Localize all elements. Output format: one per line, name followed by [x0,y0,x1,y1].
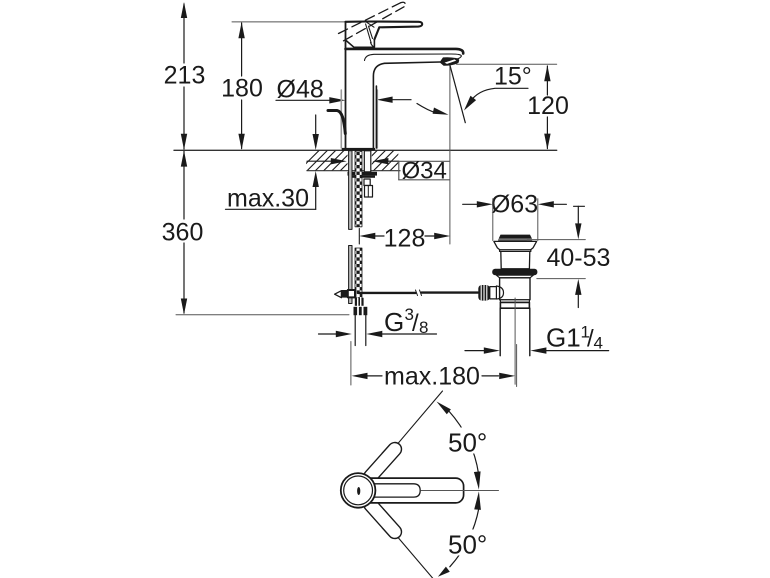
horizontal pop-up rod [358,291,478,294]
outer right column edge [375,86,377,148]
svg-text:120: 120 [527,92,569,120]
spout top edge (thick) [346,49,464,54]
arrow 120 bottom [544,134,550,150]
spout underside and inner column edge [373,62,440,148]
wire: dim 180 vertical line [241,23,243,149]
bell joint curve [496,286,503,299]
dim max.30: lower pointer and leader [313,171,319,187]
svg-text:360: 360 [162,219,204,247]
Ø63 extension lines [493,199,538,241]
body left edge [345,22,347,148]
drain upper body [501,251,530,268]
rod break marks [416,290,422,296]
thin line at -50deg (down) [358,491,433,578]
knob connector [490,287,497,299]
rod left end: cone tip [335,291,342,298]
shank tube right (in hole) [364,151,371,172]
arrow 360 top [181,151,187,167]
arrow 360 bottom [181,299,187,315]
leader for 15deg [470,88,528,102]
wire: dim 360 bottom reference line [176,314,349,316]
svg-text:Ø63: Ø63 [491,191,538,219]
pop-up bracket below deck [364,179,370,186]
50 degree arc upper [449,411,479,474]
dim max.180 [351,342,517,387]
dashed raised lever [339,2,406,41]
dim 120 vertical line [546,66,548,149]
faucet body outline [346,22,464,148]
faucet base flange [342,148,375,151]
faucet circle top view [341,473,376,508]
rotated lever outline up [361,440,404,486]
arrow 120 top [544,65,550,81]
aerator [440,58,458,66]
dim 40-53 [574,205,585,207]
wire: vertical ref line from aerator down [449,65,451,244]
dim Ø63 [463,203,477,205]
svg-text:213: 213 [164,62,206,90]
svg-text:50°: 50° [448,530,487,560]
svg-text:G1: G1 [546,323,581,353]
svg-text:180: 180 [221,75,263,103]
horizontal lever outer [358,478,464,503]
arrow 213 bottom [181,134,187,150]
deck bottom line [307,170,400,172]
svg-text:50°: 50° [448,428,487,458]
body below seal [496,275,533,278]
rotated lever outline down [361,495,404,541]
horizontal centerline [421,490,499,492]
svg-text:G: G [384,307,404,337]
callout box Ø34 [399,161,450,180]
handle lever solid [346,22,423,48]
thin line at +50deg (up) [358,391,443,491]
rod left end: screw block [342,290,348,298]
15 degree slanted line [450,65,466,123]
arrow 180 top [238,22,244,38]
drain centerline [514,298,516,384]
main drain body [500,278,530,300]
arrow 180 bottom [238,134,244,150]
dim Ø48 leader and arrows [276,99,330,101]
dim Ø34 arrow line and callout box [307,160,331,162]
svg-text:Ø34: Ø34 [402,158,447,185]
G3/8 pipe [355,315,366,345]
spout shoulder thin line wrapping right end [365,54,462,61]
drain plug cap [499,235,532,239]
drain flange [494,241,537,251]
threaded rod checkered (upper) [355,151,362,298]
svg-text:max.180: max.180 [384,363,480,391]
svg-text:Ø48: Ø48 [277,76,324,104]
svg-text:/: / [412,310,419,337]
wire: horizontal ref line at spout tip [457,63,557,65]
supply hose grey (upper) [349,151,352,304]
tailpipe [500,308,530,356]
dim 128 [358,229,360,245]
center dot [357,487,360,495]
wire: dim 360 vertical line [183,151,185,313]
knurled knob on drain [478,285,490,301]
cartridge internal lines [366,22,374,27]
deck line (countertop top) [174,149,557,151]
arc arrowheads [437,402,451,415]
wire: dim 180 extension line at handle top [232,21,345,23]
G3/8 nut [354,307,368,315]
svg-text:8: 8 [419,318,428,337]
lower collar [500,300,529,303]
mounting washer [348,172,378,176]
rod left end: clevis square [348,290,355,297]
arrow 213 top [181,2,187,18]
hose end fitting ribs [355,298,364,306]
arc arrow toward vertical line [417,104,436,113]
horizontal lever inner [367,484,420,497]
deck hatching [299,150,411,171]
labels 50deg [447,428,492,454]
svg-text:4: 4 [594,334,603,353]
svg-text:40-53: 40-53 [547,244,611,272]
wire: dim 213 vertical line [183,4,185,149]
dim max.30: upper pointer [315,115,317,134]
dim G1 1/4 [465,350,484,352]
pop-up rod knob at rear [328,111,345,134]
rubber seal ring [492,269,537,275]
dim G3/8 arrows and label [319,333,337,335]
svg-text:max.30: max.30 [227,185,309,213]
cartridge outline [346,40,375,48]
svg-text:128: 128 [384,224,426,252]
faucet body grey side lines [340,90,342,148]
svg-text:15°: 15° [494,63,532,91]
40-53 reference lines [527,240,585,279]
